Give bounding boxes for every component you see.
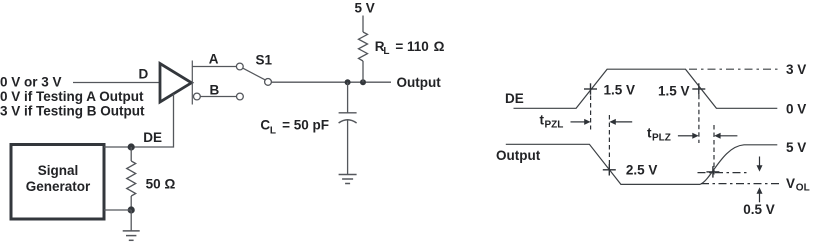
DE 3V dashed continuation bbox=[689, 68, 779, 70]
svg-text:Signal: Signal bbox=[38, 163, 79, 178]
svg-text:Ω: Ω bbox=[434, 39, 445, 54]
svg-text:0.5 V: 0.5 V bbox=[743, 202, 775, 217]
capacitor CL top plate bbox=[339, 112, 357, 114]
svg-text:1.5 V: 1.5 V bbox=[604, 82, 636, 97]
signal generator box bbox=[11, 145, 104, 220]
svg-text:= 50 pF: = 50 pF bbox=[282, 118, 329, 133]
svg-text:3 V: 3 V bbox=[786, 62, 806, 77]
resistor 50 ohm bbox=[127, 161, 136, 196]
Output waveform trace bbox=[506, 144, 778, 184]
crossing mark 2.5V bbox=[603, 164, 616, 175]
0.5V down arrow bbox=[757, 157, 763, 172]
svg-text:A: A bbox=[209, 52, 219, 67]
svg-text:0 V if Testing A Output: 0 V if Testing A Output bbox=[0, 89, 144, 104]
dashed projection line 3 (DE fall) bbox=[698, 95, 700, 143]
ground (load) bbox=[339, 175, 357, 184]
junction dot DE top bbox=[128, 143, 135, 150]
node junction dot (resistor tap) bbox=[360, 79, 366, 85]
VOL level label bbox=[786, 176, 810, 194]
wire node to capacitor bbox=[347, 82, 349, 113]
svg-text:5 V: 5 V bbox=[355, 1, 375, 16]
wire dot to resistor bbox=[130, 147, 132, 161]
dashed projection line 1 (DE rise) bbox=[590, 96, 592, 130]
wire B bbox=[200, 96, 236, 98]
wire RL to node bbox=[362, 61, 364, 82]
capacitor CL curved plate bbox=[339, 120, 357, 123]
input voltage annotation bbox=[0, 75, 145, 119]
tPLZ right arrow bbox=[714, 133, 737, 139]
svg-text:L: L bbox=[270, 126, 276, 137]
wire D input bbox=[73, 82, 159, 84]
driver U1 (buffer triangle) bbox=[160, 64, 192, 103]
svg-text:DE: DE bbox=[505, 91, 524, 106]
svg-text:5 V: 5 V bbox=[786, 140, 806, 155]
node junction dot (capacitor tap) bbox=[345, 79, 351, 85]
svg-text:3 V if Testing B Output: 3 V if Testing B Output bbox=[0, 104, 145, 119]
svg-text:0 V or 3 V: 0 V or 3 V bbox=[0, 75, 62, 90]
svg-text:Generator: Generator bbox=[26, 179, 91, 194]
tPLZ left arrow bbox=[678, 133, 699, 139]
wire generator bottom to dot bbox=[104, 209, 131, 211]
junction dot DE bottom bbox=[128, 206, 135, 213]
dashed projection line 2 (output fall) bbox=[608, 115, 610, 167]
svg-text:S1: S1 bbox=[256, 53, 273, 68]
svg-text:DE: DE bbox=[143, 130, 162, 145]
dash-dot level VOL bbox=[701, 183, 779, 185]
tPZL right arrow bbox=[609, 119, 632, 125]
dash-dot level VOL+0.5 bbox=[698, 172, 751, 174]
svg-text:Ω: Ω bbox=[165, 176, 176, 191]
svg-text:PZL: PZL bbox=[545, 120, 564, 131]
crossing mark 1.5V falling bbox=[692, 83, 705, 94]
ground (generator) bbox=[123, 231, 140, 240]
wire generator to DE node bbox=[104, 146, 131, 148]
svg-text:V: V bbox=[786, 176, 795, 191]
svg-text:0 V: 0 V bbox=[786, 101, 806, 116]
switch contact at B output bbox=[194, 93, 201, 100]
wire resistor to bottom dot bbox=[130, 196, 132, 210]
wire A bbox=[192, 66, 236, 68]
wire DE from triangle bbox=[131, 94, 173, 147]
wire capacitor to ground bbox=[347, 121, 349, 175]
switch S1 pole bbox=[265, 79, 272, 86]
svg-text:Output: Output bbox=[496, 148, 541, 163]
dashed projection line 4 (output rise) bbox=[713, 125, 715, 176]
crossing mark 1.5V rising bbox=[584, 83, 597, 94]
wire pole to output node bbox=[271, 81, 391, 83]
wire dot to ground bbox=[130, 210, 132, 231]
DE waveform trace bbox=[514, 69, 778, 108]
svg-text:2.5 V: 2.5 V bbox=[626, 163, 658, 178]
RL value label bbox=[375, 39, 445, 57]
svg-text:Output: Output bbox=[397, 75, 442, 90]
tPZL left arrow bbox=[571, 119, 591, 125]
0.5V up arrow bbox=[757, 187, 763, 202]
switch contact B bbox=[237, 93, 244, 100]
svg-text:50: 50 bbox=[146, 176, 161, 191]
output bar bbox=[191, 61, 193, 105]
wire 5V to RL bbox=[362, 16, 364, 33]
tPLZ label bbox=[647, 126, 671, 144]
svg-text:B: B bbox=[210, 82, 220, 97]
switch S1 blade bbox=[243, 68, 265, 80]
resistor RL bbox=[359, 32, 368, 61]
svg-text:L: L bbox=[383, 46, 389, 57]
svg-text:1.5 V: 1.5 V bbox=[658, 83, 690, 98]
tPZL label bbox=[540, 113, 564, 131]
svg-text:C: C bbox=[260, 118, 270, 133]
switch contact A bbox=[236, 63, 243, 70]
CL value label bbox=[260, 118, 329, 137]
crossing mark VOL+0.5V bbox=[706, 166, 719, 177]
50 ohm value label bbox=[146, 176, 176, 191]
svg-text:= 110: = 110 bbox=[395, 39, 428, 54]
svg-text:D: D bbox=[139, 67, 149, 82]
svg-text:PLZ: PLZ bbox=[652, 133, 671, 144]
svg-text:OL: OL bbox=[796, 183, 810, 194]
